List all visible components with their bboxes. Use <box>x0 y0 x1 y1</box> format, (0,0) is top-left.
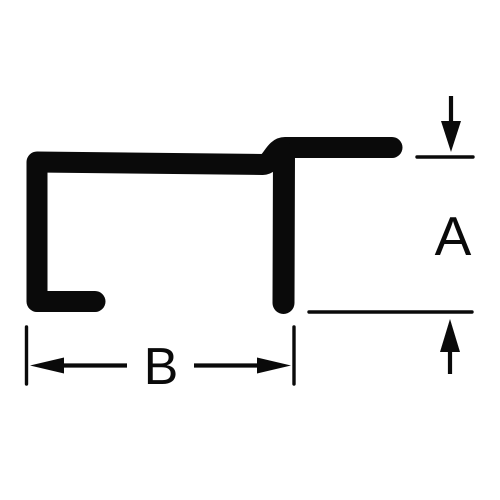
profile body: J-channel cross-section <box>37 148 392 302</box>
dimension tick line: top reference for A <box>417 155 473 158</box>
arrow: B dimension right arrow <box>194 363 259 367</box>
profile leg: vertical face leg of channel <box>273 153 296 303</box>
extension line: right for B <box>292 327 295 384</box>
arrow: up arrow pointing to bottom A reference <box>448 348 452 374</box>
dimension tick line: bottom reference for A <box>309 310 472 313</box>
svg-text:B: B <box>144 338 179 396</box>
arrow: B dimension left arrow <box>62 363 127 367</box>
extension line: left for B <box>25 327 28 384</box>
arrow: down arrow pointing to top A reference <box>449 96 453 126</box>
svg-text:A: A <box>435 205 472 267</box>
